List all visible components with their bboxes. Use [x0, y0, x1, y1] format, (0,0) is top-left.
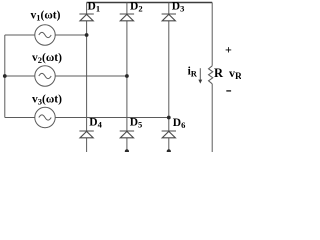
svg-text:D5: D5: [130, 116, 143, 129]
svg-text:D6: D6: [173, 117, 186, 130]
svg-text:v3(ωt): v3(ωt): [32, 93, 62, 106]
svg-text:v2(ωt): v2(ωt): [32, 52, 62, 65]
svg-text:+: +: [225, 43, 232, 57]
svg-text:R: R: [214, 66, 224, 80]
svg-text:vR: vR: [229, 66, 241, 82]
svg-text:D4: D4: [89, 116, 102, 129]
svg-text:iR: iR: [188, 66, 198, 79]
svg-text:v1(ωt): v1(ωt): [31, 10, 61, 23]
